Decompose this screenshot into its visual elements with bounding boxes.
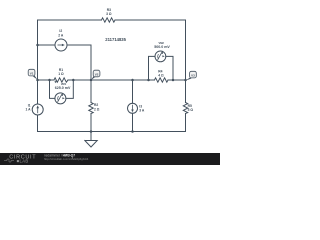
wire mid row b: [68, 79, 149, 81]
resistor R4: [155, 78, 169, 82]
current source I2: [55, 39, 67, 51]
svg-text:R5: R5: [188, 104, 192, 108]
svg-text:5 Ω: 5 Ω: [188, 108, 194, 112]
svg-text:3 Ω: 3 Ω: [106, 12, 112, 16]
svg-text:2 Ω: 2 Ω: [94, 107, 100, 111]
wire bottom row: [38, 131, 186, 133]
svg-text:500.0 mV: 500.0 mV: [154, 45, 170, 49]
wire I3 branch lower: [132, 113, 134, 131]
wire I3 branch upper: [132, 80, 134, 103]
svg-text:V1: V1: [30, 71, 34, 75]
svg-text:211714835: 211714835: [105, 37, 126, 42]
wire top left: [38, 19, 102, 21]
wire VM2 loop right: [166, 56, 173, 80]
voltmeter VM1: [55, 93, 66, 104]
plus sign VM1: [55, 81, 57, 83]
svg-text:4 Ω: 4 Ω: [158, 73, 164, 77]
svg-text:V2: V2: [95, 72, 99, 76]
node flag V3: [186, 71, 197, 80]
svg-text:V3: V3: [191, 73, 195, 77]
resistor R5: [183, 103, 187, 114]
current source I1: [32, 104, 43, 115]
svg-text:I2: I2: [59, 29, 62, 33]
resistor R2: [89, 103, 93, 114]
svg-text:I1: I1: [28, 103, 31, 107]
logo CircuitLab: [4, 154, 36, 163]
svg-text:2 A: 2 A: [58, 33, 64, 37]
wire top right: [115, 19, 186, 21]
wire left rail upper: [37, 20, 39, 104]
resistor R3: [102, 18, 116, 22]
svg-text:1 A: 1 A: [25, 107, 31, 111]
labels: [25, 8, 193, 112]
wire I2 right: [67, 45, 91, 80]
svg-text:http://circuitlab.com/c45d2dp6: http://circuitlab.com/c45d2dp6gh4r4: [44, 157, 89, 161]
svg-text:■LAB: ■LAB: [17, 158, 29, 163]
wire R2 branch upper: [90, 80, 92, 103]
svg-text:R1: R1: [59, 68, 63, 72]
svg-text:1 Ω: 1 Ω: [58, 72, 64, 76]
voltmeter VM2: [155, 51, 166, 62]
wire R2 branch lower: [90, 114, 92, 132]
wire mid row a: [38, 79, 55, 81]
junction dots: [36, 44, 187, 133]
ground: [90, 132, 92, 141]
watermark bar: [0, 153, 220, 165]
wire mid row c: [149, 79, 155, 81]
wire VM1 loop right: [66, 80, 73, 98]
svg-text:R3: R3: [107, 8, 111, 12]
svg-text:R2: R2: [94, 103, 98, 107]
resistor R1: [54, 78, 68, 82]
wire right rail lower: [185, 114, 187, 132]
node flag V2: [91, 70, 100, 80]
wire left rail lower: [37, 115, 39, 132]
wire VM1 loop left: [50, 80, 55, 98]
svg-text:625.0 mV: 625.0 mV: [55, 86, 71, 90]
wire right rail upper: [185, 20, 187, 103]
current source I3: [128, 103, 138, 113]
svg-text:R4: R4: [158, 69, 162, 73]
node flag V1: [28, 69, 37, 79]
svg-text:3 A: 3 A: [139, 108, 145, 112]
wire VM2 loop left: [149, 56, 156, 80]
svg-text:I3: I3: [139, 104, 142, 108]
wire I2 left: [38, 44, 56, 46]
